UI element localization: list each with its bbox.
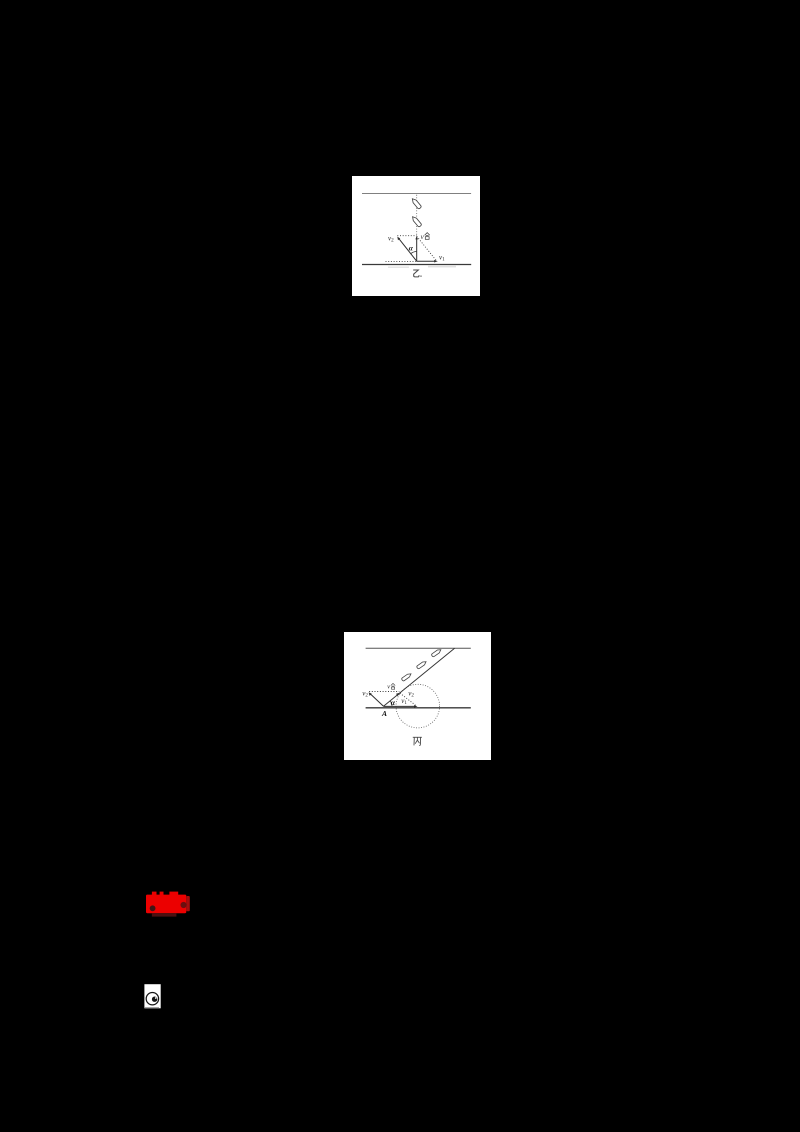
boat 3 (bottom) [401, 672, 412, 681]
comma after 乙 [420, 275, 421, 277]
top river bank [366, 647, 471, 649]
boat 2 (middle) [417, 660, 428, 669]
stamp main body [146, 895, 186, 914]
top river bank [362, 192, 471, 194]
vector v2 (up-left from A) [370, 694, 383, 706]
red stamp [143, 889, 193, 918]
faint smudge left [388, 266, 409, 267]
svg-text:v: v [387, 684, 390, 690]
bottom river bank [366, 707, 471, 709]
svg-text:A: A [381, 709, 387, 718]
dotted parallelogram top side [397, 234, 416, 236]
icon white page [144, 984, 160, 1008]
resultant arrowhead on diagonal [396, 692, 400, 696]
svg-text:v1: v1 [439, 253, 445, 262]
vector v2 (boat velocity, up-left) [399, 238, 417, 260]
vertical dotted path line [416, 194, 418, 235]
dotted parallelogram top side [369, 690, 399, 692]
stamp top bump 3 [169, 892, 178, 896]
he character 合 [391, 683, 395, 689]
vector v-he (resultant, vertical) [416, 238, 418, 261]
dashed v2 translated side [400, 693, 417, 706]
dotted baseline extending left of origin [385, 260, 416, 262]
boat 1 (upper) [411, 197, 422, 209]
stamp right edge dark [186, 896, 190, 911]
figure box 乙 (river crossing diagram 1) [352, 176, 480, 296]
icon outer circle [146, 992, 158, 1004]
icon bottom gray line [144, 1006, 158, 1009]
svg-text:v2: v2 [363, 689, 369, 698]
svg-text:α: α [391, 698, 396, 707]
stamp dark spot left [150, 905, 156, 911]
svg-text:v2: v2 [409, 689, 415, 698]
icon pupil highlight [154, 997, 156, 999]
dotted parallelogram right side [417, 236, 437, 260]
caption 丙 [413, 737, 422, 745]
svg-text:v2: v2 [388, 234, 394, 243]
boat 2 (lower) [411, 215, 422, 227]
figure box 丙 (river crossing diagram 2) [344, 632, 490, 760]
vector v1 (water velocity, horizontal) [417, 260, 435, 262]
stamp bottom dark strip [152, 913, 177, 916]
stamp dark spot right [181, 902, 187, 908]
angle alpha arc [411, 251, 417, 253]
stamp top bump 1 [152, 892, 157, 896]
icon pupil [151, 996, 156, 1001]
caption 乙 [413, 270, 419, 277]
bottom river bank [362, 263, 471, 265]
boat 1 (top) [431, 648, 442, 657]
angle alpha arc at A [390, 701, 392, 706]
dotted circle (locus of v2) [396, 684, 440, 728]
faint smudge right [428, 265, 456, 267]
svg-text:α: α [409, 243, 414, 252]
he character 合 [425, 232, 430, 239]
small image icon (circle with dot) [144, 984, 161, 1009]
boat path diagonal line [384, 648, 455, 706]
vector v1 (horizontal from A) [384, 705, 415, 707]
svg-text:v: v [421, 233, 425, 241]
stamp top bump 2 [160, 892, 164, 896]
